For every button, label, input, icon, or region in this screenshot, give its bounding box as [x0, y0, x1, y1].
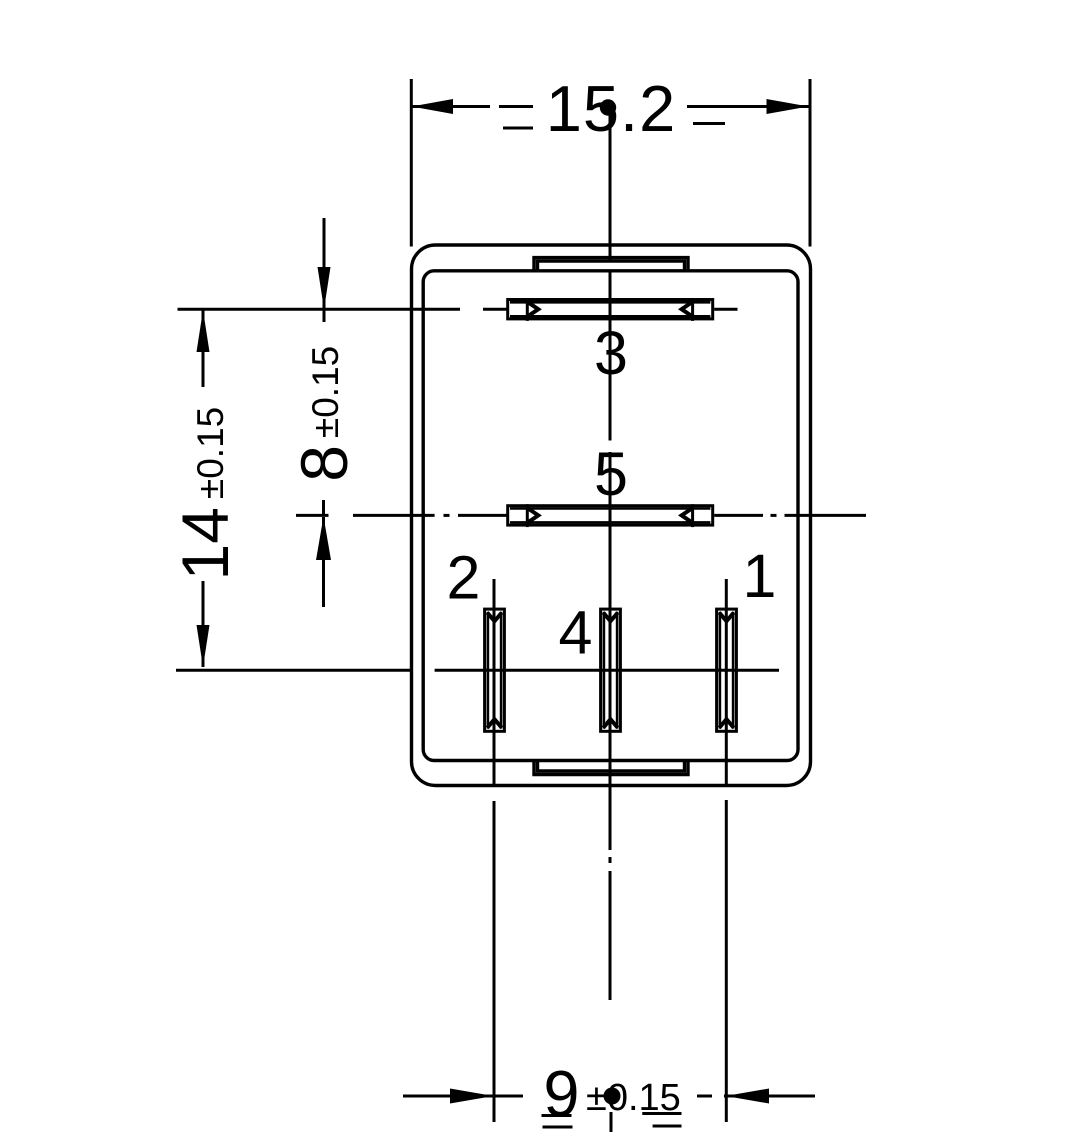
- pin slot 4 top chevron: [603, 613, 618, 622]
- bottom pin row line left ext: [176, 669, 411, 672]
- pin slot 1 bottom chevron: [719, 719, 734, 728]
- dim 9 line right: [724, 1095, 815, 1098]
- pin slot 5 right end cap: [691, 504, 694, 527]
- pin slot 2 outer: [485, 609, 505, 731]
- pin slot 5 right chevron: [682, 508, 693, 523]
- pin slot 5 inner bottom line: [510, 521, 710, 524]
- svg-text:1: 1: [743, 542, 777, 610]
- dim 8 line upper: [323, 218, 326, 322]
- centerline dot top: [600, 99, 616, 115]
- dim 9 right arrowhead: [726, 1089, 770, 1104]
- vertical centerline main segment 3: [609, 452, 612, 850]
- vertical centerline main through body: [609, 270, 612, 441]
- pin 5 row centerline left long: [353, 514, 435, 517]
- pin slot 2 inner right line: [500, 612, 503, 729]
- pin 5 row centerline right: [714, 514, 763, 517]
- centerline dot bottom: [604, 1088, 621, 1105]
- dim 15.2 left equals upper bar: [499, 105, 533, 108]
- pin slot 4 inner right line: [616, 612, 619, 729]
- dim 9 under-9 equals upper bar: [542, 1114, 572, 1117]
- pin slot 1 top chevron: [719, 613, 734, 622]
- pin slot 4 bottom chevron: [603, 719, 618, 728]
- dim 14 top arrowhead: [197, 310, 210, 352]
- bottom tab inner: [538, 761, 685, 772]
- pin 5 row centerline ext near dim: [296, 514, 329, 517]
- pin slot 3 left end cap: [526, 298, 529, 321]
- dim 15.2 left extension line: [410, 79, 413, 247]
- vertical centerline main lower segment: [609, 871, 612, 1000]
- pin slot 5 inner top line: [510, 507, 710, 510]
- pin 1 centerline upper: [725, 579, 728, 786]
- dim 8 top arrowhead: [318, 267, 331, 309]
- vertical centerline main dash dot: [609, 857, 612, 863]
- dim 15.2 line right: [687, 105, 809, 108]
- pin 5 row centerline right dot: [771, 514, 777, 517]
- dim 15.2 left equals lower bar: [503, 127, 533, 130]
- svg-text:15.2: 15.2: [546, 72, 677, 145]
- pin slot 3 inner bottom line: [510, 315, 710, 318]
- pin slot 3 inner top line: [510, 301, 710, 304]
- dim 9 line right dash: [697, 1095, 712, 1098]
- pin 5 row centerline left short: [458, 514, 507, 517]
- svg-text:9: 9: [543, 1057, 579, 1130]
- dim 15.2 right arrowhead: [767, 99, 809, 114]
- svg-text:2: 2: [447, 544, 481, 612]
- pin 2 centerline / extension line lower: [493, 801, 496, 1122]
- pin 1 centerline / extension line lower: [725, 800, 728, 1122]
- dim 15.2 right extension line: [809, 79, 812, 247]
- svg-text:4: 4: [559, 599, 593, 667]
- pin 5 row centerline dot: [444, 514, 450, 517]
- pin slot 5 outer: [508, 506, 713, 525]
- pin slot 5 left chevron: [527, 508, 538, 523]
- dim 8 line lower: [322, 517, 325, 607]
- svg-text:±0.15: ±0.15: [586, 1077, 681, 1119]
- pin slot 1 inner left line: [719, 612, 722, 729]
- relay body inner outline: [423, 271, 798, 761]
- pin slot 1 outer: [717, 609, 737, 731]
- dim 8 bottom arrowhead: [316, 517, 331, 561]
- svg-text:5: 5: [594, 440, 628, 508]
- pin slot 3 outer: [508, 300, 713, 319]
- pin slot 4 inner left line: [603, 612, 606, 729]
- vertical centerline main top segment: [609, 107, 612, 262]
- dim 15.2 line left: [412, 105, 491, 108]
- dim 15.2 left arrowhead: [412, 99, 454, 114]
- dim 9 under-15 equals lower bar: [653, 1125, 682, 1128]
- dim 9 under-9 equals lower bar: [543, 1126, 573, 1129]
- dim 9 left arrowhead: [450, 1089, 494, 1104]
- bottom tab outer: [534, 761, 688, 775]
- pin 3 row centerline dash: [483, 308, 507, 311]
- dim 14 line upper: [202, 310, 205, 387]
- pin slot 3 right end cap: [691, 298, 694, 321]
- dim 15.2 right equals lower bar: [693, 122, 725, 125]
- pin slot 1 inner right line: [732, 612, 735, 729]
- pin 3 row centerline right: [714, 308, 737, 311]
- dim 14 line lower: [202, 581, 205, 667]
- pin slot 4 outer: [601, 609, 621, 731]
- pin 3 row centerline left: [178, 308, 461, 311]
- pin 5 row centerline right long: [785, 514, 867, 517]
- pin 2 centerline upper: [493, 579, 496, 786]
- pin slot 3 left chevron: [527, 302, 538, 317]
- dim 14 bottom arrowhead: [197, 625, 210, 667]
- svg-text:3: 3: [594, 319, 628, 387]
- vertical centerline main bottom dash: [610, 1112, 613, 1132]
- pin slot 2 bottom chevron: [487, 719, 502, 728]
- top tab outer: [534, 258, 688, 271]
- dim 9 line left: [403, 1095, 523, 1098]
- pin slot 3 right chevron: [682, 302, 693, 317]
- dim 9 under-15 equals upper bar: [642, 1112, 681, 1115]
- top tab inner: [538, 261, 685, 271]
- relay body outer outline: [412, 245, 811, 786]
- bottom pin row line through body: [435, 669, 779, 672]
- pin slot 5 left end cap: [526, 504, 529, 527]
- pin slot 2 inner left line: [487, 612, 490, 729]
- dim 8 line mid cross: [322, 500, 325, 516]
- pin slot 2 top chevron: [487, 613, 502, 622]
